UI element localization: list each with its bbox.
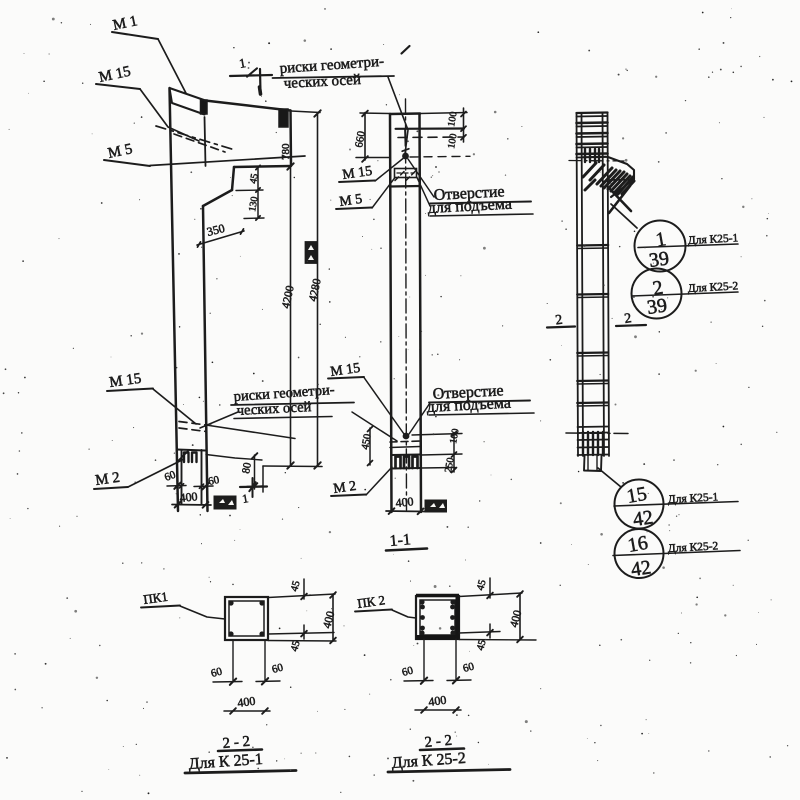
svg-text:400: 400 [179,489,198,505]
svg-text:М 1: М 1 [112,13,139,34]
svg-text:4200: 4200 [280,284,297,309]
svg-text:16: 16 [626,532,650,557]
svg-text:100: 100 [446,133,459,150]
svg-text:1: 1 [238,55,247,71]
svg-text:М 2: М 2 [94,470,121,489]
svg-text:1: 1 [241,491,249,506]
svg-text:780: 780 [280,143,292,160]
svg-text:Для К 25-1: Для К 25-1 [188,751,263,773]
svg-text:4280: 4280 [307,277,324,302]
svg-text:60: 60 [462,660,476,675]
svg-text:45: 45 [475,639,488,652]
svg-text:60: 60 [271,661,285,676]
svg-text:45: 45 [248,173,261,185]
svg-text:80: 80 [240,461,254,474]
svg-text:400: 400 [508,609,524,629]
svg-text:1-1: 1-1 [389,531,412,550]
svg-text:60: 60 [210,665,224,680]
svg-text:45: 45 [475,579,488,592]
svg-text:100: 100 [448,428,461,445]
svg-text:М 15: М 15 [108,371,142,391]
svg-text:45: 45 [289,580,302,593]
svg-text:ПК1: ПК1 [142,589,168,607]
svg-text:42: 42 [632,506,655,531]
svg-text:ческих осей: ческих осей [283,72,361,92]
svg-text:450: 450 [360,433,374,450]
svg-text:ческих осей: ческих осей [236,399,312,419]
svg-text:60: 60 [401,664,415,679]
svg-text:100: 100 [446,111,459,128]
svg-text:60: 60 [163,469,178,484]
svg-text:ПК 2: ПК 2 [356,592,386,611]
svg-text:для подъема: для подъема [426,395,511,416]
svg-text:400: 400 [236,694,256,710]
svg-text:39: 39 [646,294,669,319]
svg-text:М 5: М 5 [107,141,134,162]
svg-text:45: 45 [289,640,302,653]
svg-text:Для К 25-2: Для К 25-2 [391,750,466,772]
svg-text:М 15: М 15 [98,64,133,86]
svg-text:42: 42 [630,556,653,581]
svg-text:15: 15 [625,483,649,508]
svg-text:400: 400 [321,610,337,630]
svg-text:400: 400 [395,494,414,510]
svg-text:Для К25-1: Для К25-1 [668,491,719,506]
svg-text:350: 350 [205,221,226,239]
svg-text:для подъема: для подъема [427,196,512,217]
svg-text:Для К25-2: Для К25-2 [668,540,719,555]
svg-text:400: 400 [427,693,447,709]
